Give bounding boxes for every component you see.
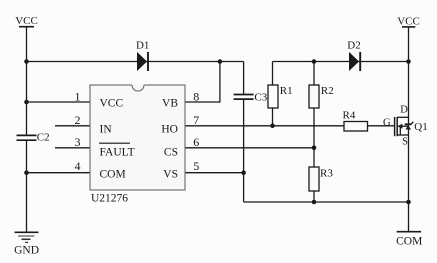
wire top rail B bbox=[273, 61, 409, 63]
wire left vertical rail lower bbox=[26, 140, 28, 232]
Q1 channel bar bbox=[396, 117, 398, 136]
wire R4 to gate bbox=[368, 125, 395, 127]
node rail-rightVCC bbox=[406, 59, 411, 64]
wire pin 1 bbox=[27, 101, 91, 103]
wire R1 top bbox=[272, 62, 274, 86]
Q1 body diode tick bbox=[411, 122, 413, 125]
wire R3 bottom bbox=[313, 191, 315, 202]
terminal COM bbox=[396, 232, 422, 248]
node rail-leftVCC bbox=[24, 59, 29, 64]
Q1 body diode triangle bbox=[406, 125, 412, 129]
svg-text:VB: VB bbox=[162, 97, 178, 109]
transistor Q1 bbox=[383, 105, 428, 148]
wire pin 5 VS line bbox=[185, 172, 244, 174]
Q1 gate bar bbox=[394, 117, 396, 136]
resistor R4 bbox=[343, 110, 368, 132]
power VCC left bbox=[15, 15, 38, 27]
svg-text:1: 1 bbox=[75, 89, 81, 103]
wire R2 top bbox=[313, 62, 315, 86]
svg-text:VCC: VCC bbox=[397, 15, 420, 27]
node R3 bottom bbox=[312, 200, 317, 205]
Q1 drain arm bbox=[397, 116, 408, 118]
wire C3 branch lower bbox=[243, 99, 245, 202]
svg-text:D2: D2 bbox=[347, 40, 360, 52]
wire pin 6 CS line bbox=[185, 147, 314, 149]
capacitor C3 bbox=[234, 91, 268, 103]
svg-text:U21276: U21276 bbox=[91, 193, 128, 205]
svg-text:COM: COM bbox=[100, 168, 126, 180]
wire VB branch bbox=[185, 62, 220, 103]
svg-text:R2: R2 bbox=[321, 85, 334, 97]
node R1-HO bbox=[270, 124, 275, 129]
wire right vertical rail bbox=[408, 27, 410, 232]
svg-text:G: G bbox=[383, 117, 391, 128]
svg-text:IN: IN bbox=[100, 123, 113, 135]
op-amp U1 box (IC U21276) bbox=[90, 84, 185, 190]
capacitor C2 bbox=[17, 131, 50, 143]
wire pin 7 HO line bbox=[185, 125, 344, 127]
wire pin 2 stub bbox=[55, 125, 90, 127]
svg-text:7: 7 bbox=[193, 113, 199, 127]
node pin4 tap bbox=[24, 170, 29, 175]
ground GND bbox=[14, 232, 39, 256]
Q1 body arm bbox=[402, 125, 409, 127]
svg-text:HO: HO bbox=[161, 123, 178, 135]
svg-text:C2: C2 bbox=[37, 131, 50, 143]
Q1 body diode bar bbox=[405, 123, 412, 125]
svg-text:5: 5 bbox=[193, 159, 199, 173]
wire C3 branch upper bbox=[243, 62, 245, 95]
svg-text:8: 8 bbox=[193, 89, 199, 103]
node pin1 tap bbox=[24, 100, 29, 105]
wire R1 bottom bbox=[272, 108, 274, 126]
node VB tap bbox=[218, 59, 223, 64]
wire R2 bottom to R3 bbox=[313, 108, 315, 167]
node source-COM bbox=[406, 200, 411, 205]
wire bottom VS run bbox=[244, 201, 409, 203]
svg-text:D1: D1 bbox=[136, 40, 149, 52]
Q1 body arrow bbox=[397, 124, 402, 129]
wire pin 4 bbox=[27, 172, 91, 174]
svg-text:4: 4 bbox=[75, 159, 81, 173]
svg-text:C3: C3 bbox=[254, 91, 267, 103]
svg-text:D: D bbox=[400, 105, 408, 116]
svg-text:S: S bbox=[402, 137, 408, 148]
wire top rail A bbox=[27, 61, 244, 63]
svg-text:COM: COM bbox=[396, 235, 422, 247]
wire left vertical rail upper bbox=[26, 27, 28, 135]
power VCC right bbox=[397, 15, 420, 27]
resistor R3 bbox=[309, 167, 333, 191]
svg-text:FAULT: FAULT bbox=[100, 146, 135, 158]
svg-text:R1: R1 bbox=[280, 85, 293, 97]
resistor R2 bbox=[309, 85, 334, 108]
svg-text:VCC: VCC bbox=[15, 15, 38, 27]
svg-text:2: 2 bbox=[75, 113, 81, 127]
svg-text:3: 3 bbox=[75, 135, 81, 149]
diode D2 bbox=[347, 40, 360, 71]
svg-text:6: 6 bbox=[193, 135, 199, 149]
resistor R1 bbox=[268, 85, 293, 108]
Q1 source arm bbox=[397, 134, 408, 136]
diode D1 bbox=[136, 40, 149, 71]
node R2 top bbox=[312, 59, 317, 64]
svg-text:Q1: Q1 bbox=[414, 121, 427, 133]
svg-text:R4: R4 bbox=[343, 110, 356, 122]
node VS tap bbox=[241, 170, 246, 175]
svg-text:VS: VS bbox=[163, 168, 178, 180]
wire pin 3 stub bbox=[55, 147, 90, 149]
svg-text:CS: CS bbox=[164, 146, 178, 158]
svg-text:GND: GND bbox=[14, 244, 39, 256]
node CS-R2R3 bbox=[312, 146, 317, 151]
svg-text:R3: R3 bbox=[320, 168, 333, 180]
svg-text:VCC: VCC bbox=[100, 97, 124, 109]
Q1 body-source link bbox=[399, 126, 401, 135]
IC FAULT overline bbox=[99, 142, 130, 144]
